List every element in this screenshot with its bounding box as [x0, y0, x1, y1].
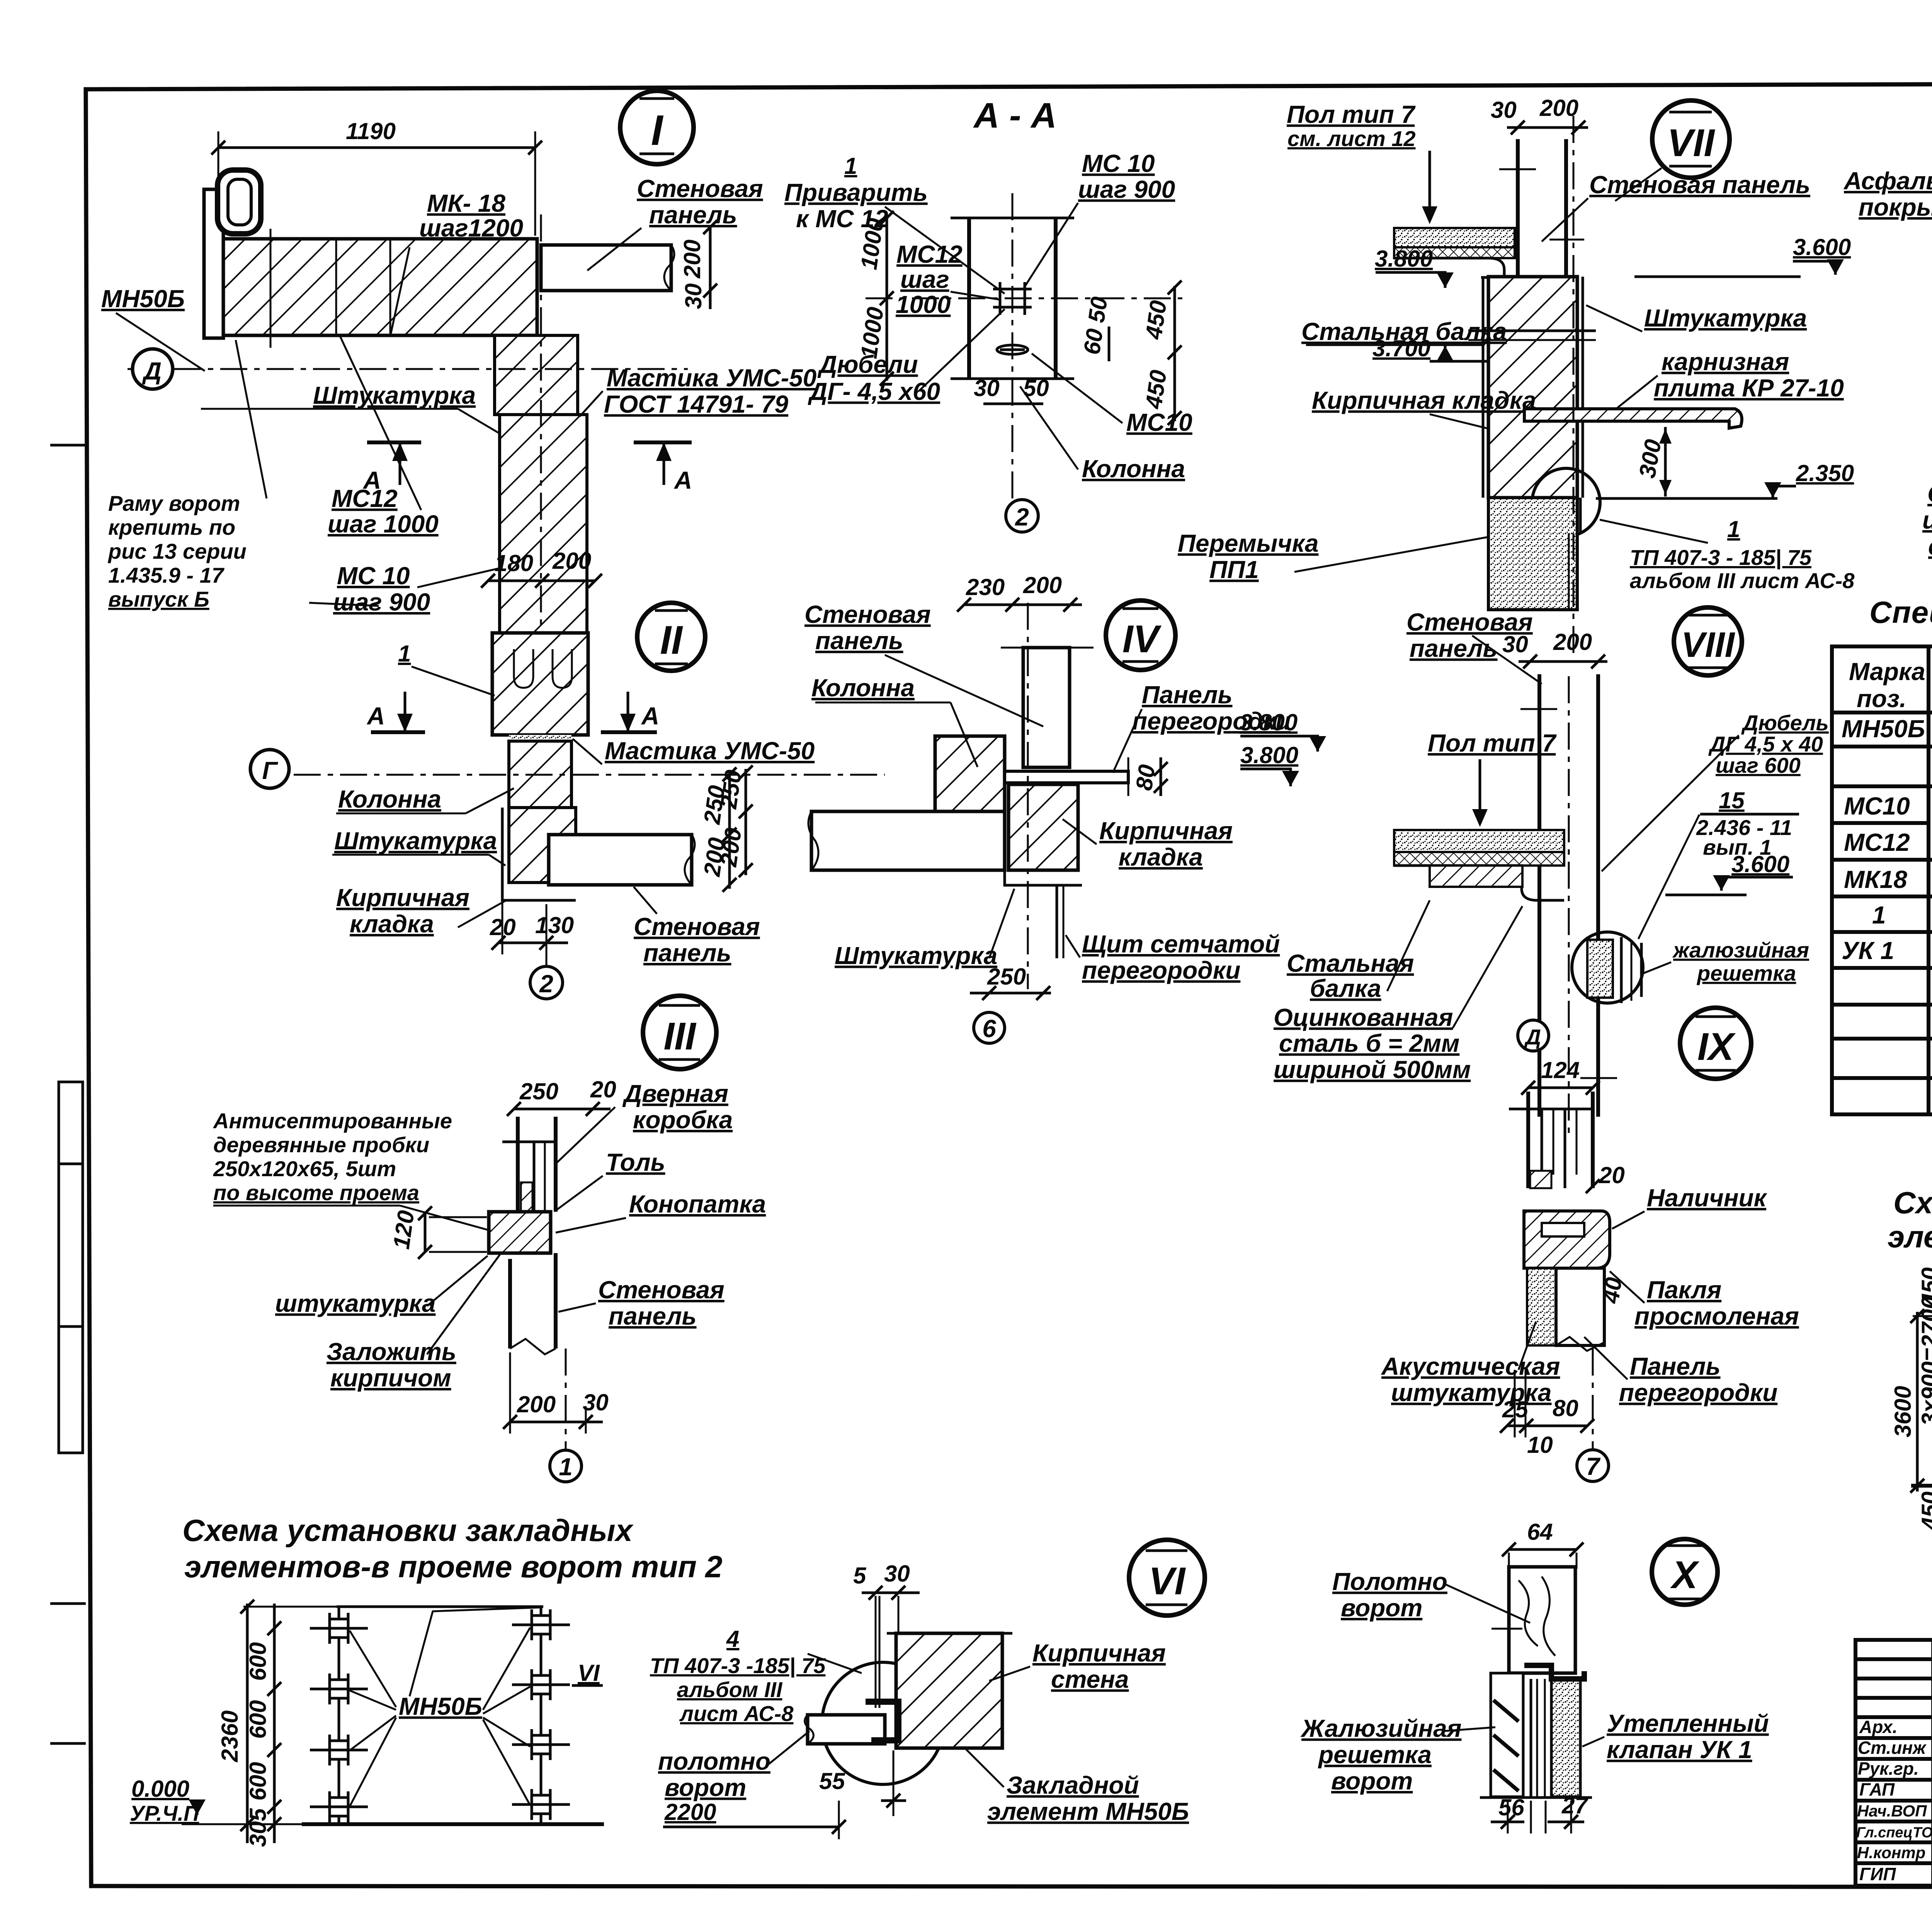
svg-text:130: 130 — [535, 912, 574, 938]
cornice slab — [1524, 409, 1742, 428]
svg-text:Н.контр: Н.контр — [1857, 1844, 1925, 1862]
svg-text:МК18: МК18 — [1844, 866, 1907, 893]
svg-text:Пакля: Пакля — [1647, 1276, 1721, 1304]
left signature table — [1855, 1657, 1932, 1661]
label MC10 шаг900 — [333, 562, 500, 616]
mastic seam — [509, 735, 571, 741]
label Кирпичная стена — [989, 1639, 1166, 1693]
plaster strip — [1582, 277, 1584, 498]
left dims 1000/1000 — [856, 211, 894, 386]
dims 250 200 left — [715, 765, 753, 877]
label Заложить кирпичом — [327, 1254, 500, 1392]
svg-text:250: 250 — [519, 1078, 558, 1104]
label Утепленный клапан УК1 — [1582, 1709, 1769, 1764]
label Штукатурка — [201, 381, 498, 433]
label Перемычка ПП1 — [1178, 529, 1488, 583]
svg-text:1: 1 — [1872, 901, 1886, 929]
svg-text:200: 200 — [552, 548, 591, 574]
svg-text:600: 600 — [245, 1700, 271, 1739]
label Кирпичная кладка — [336, 884, 506, 938]
svg-text:панель: панель — [609, 1302, 697, 1330]
svg-text:2: 2 — [539, 970, 553, 998]
label МС12 шаг 1000 — [896, 240, 999, 318]
valve core — [1524, 1665, 1584, 1797]
svg-text:80: 80 — [1131, 763, 1160, 792]
dim 250 bottom — [970, 964, 1051, 1000]
wooden plug hatched — [489, 1212, 551, 1253]
svg-text:Д: Д — [1524, 1025, 1541, 1049]
svg-text:55: 55 — [819, 1768, 845, 1794]
svg-text:Штукатурка: Штукатурка — [835, 942, 997, 969]
dim 80 — [1131, 757, 1168, 796]
neck — [509, 741, 571, 808]
label 1 — [398, 641, 495, 696]
svg-text:450: 450 — [1140, 299, 1171, 341]
right dims 450/450 60/50 — [1079, 281, 1182, 425]
svg-text:плита КР 27-10: плита КР 27-10 — [1654, 374, 1844, 402]
svg-text:шириной 500мм: шириной 500мм — [1274, 1056, 1471, 1083]
svg-text:Ст.инж: Ст.инж — [1858, 1738, 1927, 1758]
axis — [1573, 116, 1575, 657]
svg-text:Стеновая: Стеновая — [804, 600, 931, 628]
level 3.800 left — [1375, 246, 1454, 288]
svg-text:перегородки: перегородки — [1082, 956, 1240, 984]
label Дюбели ДГ-4,5х60 — [808, 309, 1005, 405]
svg-text:А - А: А - А — [973, 96, 1057, 135]
svg-text:56: 56 — [1498, 1794, 1524, 1820]
svg-text:7: 7 — [1586, 1452, 1601, 1480]
svg-text:Приварить: Приварить — [784, 179, 928, 206]
wall panel verticals — [1537, 674, 1541, 1117]
svg-text:МК- 18: МК- 18 — [427, 189, 505, 217]
svg-text:450: 450 — [1140, 368, 1171, 410]
svg-text:Жалюзийная: Жалюзийная — [1300, 1714, 1461, 1742]
svg-text:ТП 407-3 - 185| 75: ТП 407-3 - 185| 75 — [1630, 545, 1812, 570]
level 3.600 — [1634, 234, 1851, 277]
svg-text:Дюбели: Дюбели — [817, 350, 918, 378]
svg-text:лист АС-8: лист АС-8 — [679, 1701, 794, 1726]
svg-text:МН50Б: МН50Б — [101, 285, 185, 313]
svg-text:IV: IV — [1122, 617, 1162, 661]
dim 250 20 — [507, 1077, 616, 1116]
svg-text:VII: VII — [1667, 121, 1715, 165]
jalousie strip — [1491, 1673, 1523, 1797]
label Стеновая панель — [1542, 171, 1810, 241]
svg-text:250: 250 — [715, 768, 746, 810]
label Оцинкованная сталь — [1274, 906, 1522, 1083]
svg-text:Пол тип 7: Пол тип 7 — [1287, 100, 1416, 128]
label карнизная плита КР27-10 — [1615, 348, 1844, 410]
axis Г — [294, 774, 885, 776]
svg-text:600: 600 — [245, 1642, 271, 1681]
svg-text:5: 5 — [853, 1563, 867, 1588]
svg-text:0.000: 0.000 — [131, 1776, 189, 1802]
svg-text:МС12: МС12 — [332, 485, 398, 512]
svg-text:Стеновая панель: Стеновая панель — [1589, 171, 1810, 199]
svg-text:450: 450 — [1917, 1267, 1932, 1306]
svg-text:80: 80 — [1553, 1395, 1578, 1421]
label Колонна — [811, 674, 978, 767]
level 3.700 left — [1372, 335, 1509, 361]
svg-text:ДГ 4,5 х 40: ДГ 4,5 х 40 — [1708, 732, 1823, 756]
label Пакля просмоленая — [1610, 1271, 1799, 1330]
axis lines — [540, 214, 542, 641]
bolts right column — [512, 1609, 570, 1820]
zoom circle — [822, 1662, 944, 1784]
svg-text:Мастика УМС-50: Мастика УМС-50 — [605, 737, 815, 765]
level 3.800 — [1240, 742, 1299, 786]
axis — [1012, 193, 1014, 502]
svg-text:450: 450 — [1917, 1492, 1932, 1531]
svg-text:Нач.ВОП: Нач.ВОП — [1857, 1802, 1927, 1820]
svg-text:Кирпичная: Кирпичная — [1099, 817, 1233, 845]
bolts center — [993, 282, 1032, 354]
label Полотно ворот — [1332, 1568, 1530, 1623]
svg-text:сталь б = 2мм: сталь б = 2мм — [1279, 1029, 1459, 1057]
label 1 ТП407-3-185/75 альбом III лист АС-8 — [1600, 516, 1855, 593]
zoom circle on lintel — [1532, 468, 1600, 536]
svg-text:2.350: 2.350 — [1796, 460, 1854, 486]
svg-text:МС 10: МС 10 — [1082, 150, 1155, 177]
svg-text:элементов в проеме ворот: элементов в проеме ворот — [1888, 1219, 1932, 1254]
dims 25 80 10 — [1500, 1370, 1594, 1458]
dim 20 130 — [490, 889, 574, 954]
svg-text:альбом III лист АС-8: альбом III лист АС-8 — [1630, 568, 1855, 593]
label Штукатурка — [332, 827, 505, 866]
wall panel — [1516, 139, 1520, 277]
svg-text:покрытие: покрытие — [1859, 193, 1932, 221]
label Канопатка — [556, 1190, 766, 1233]
brick column — [1488, 277, 1577, 498]
detail mark VIII — [1674, 607, 1742, 675]
label Пол тип 7 — [1428, 729, 1557, 827]
svg-text:ПП1: ПП1 — [1209, 556, 1259, 583]
label Штукатурка — [1586, 304, 1807, 332]
svg-text:1: 1 — [559, 1453, 573, 1481]
svg-text:балка: балка — [1310, 975, 1381, 1002]
label Акустическая штукатурка — [1381, 1321, 1560, 1406]
axis — [1568, 676, 1570, 1140]
svg-text:124: 124 — [1541, 1057, 1580, 1083]
svg-text:250: 250 — [987, 964, 1026, 990]
column hatched square — [935, 736, 1005, 811]
svg-text:Дверная: Дверная — [622, 1080, 728, 1107]
svg-text:Штукатурка: Штукатурка — [1644, 304, 1807, 332]
svg-text:панель: панель — [649, 201, 737, 229]
door frame profile — [502, 1117, 556, 1212]
dim 20 — [1586, 1162, 1625, 1193]
dim 200 30 — [503, 1352, 609, 1434]
ground line — [1911, 1484, 1932, 1488]
svg-text:1190: 1190 — [346, 118, 396, 144]
svg-text:Антисептированные: Антисептированные — [213, 1109, 452, 1133]
svg-text:к МС 12: к МС 12 — [796, 205, 888, 233]
svg-text:элементов-в проеме ворот ти: элементов-в проеме ворот тип 2 — [184, 1549, 723, 1584]
label Наличник — [1612, 1184, 1768, 1229]
level 3.800 — [1240, 709, 1326, 752]
svg-text:шаг 600: шаг 600 — [1716, 753, 1801, 777]
dim 40 — [1597, 1276, 1627, 1312]
node bubble 1 — [550, 1349, 582, 1482]
svg-text:Закладной: Закладной — [1007, 1771, 1139, 1799]
svg-text:II: II — [660, 618, 683, 663]
signature rows texts — [1856, 1717, 1932, 1884]
wall panel right — [541, 245, 674, 291]
label Стальная балка — [1287, 900, 1430, 1002]
mark VI — [572, 1660, 603, 1686]
section marks A — [366, 692, 659, 732]
dim 2200 — [663, 1799, 846, 1839]
svg-text:жалюзийная: жалюзийная — [1672, 938, 1809, 962]
svg-text:Стальная балка: Стальная балка — [1301, 318, 1507, 345]
level 0.000 УР.Ч.П — [130, 1776, 247, 1825]
svg-text:просмоленая: просмоленая — [1634, 1302, 1799, 1330]
svg-text:МН50Б: МН50Б — [399, 1692, 482, 1720]
window block profile — [1509, 1092, 1593, 1188]
label Мастика УМС-50 ГОСТ14791-79 — [580, 364, 816, 418]
svg-text:10: 10 — [1527, 1432, 1553, 1458]
wall panel right — [549, 835, 695, 885]
svg-text:200: 200 — [1023, 572, 1062, 598]
svg-text:Схема установки закладных: Схема установки закладных — [1893, 1185, 1932, 1220]
svg-text:А: А — [641, 702, 659, 730]
svg-text:Рук.гр.: Рук.гр. — [1858, 1759, 1919, 1779]
svg-text:перегородки: перегородки — [1619, 1379, 1777, 1406]
svg-text:Арх.: Арх. — [1859, 1717, 1898, 1737]
dim 55 — [819, 1750, 906, 1816]
column lower part — [1488, 498, 1577, 610]
label Закладной элемент МН50Б — [966, 1749, 1189, 1825]
svg-text:Полотно: Полотно — [1332, 1568, 1447, 1595]
svg-text:15: 15 — [1719, 787, 1745, 813]
grid bubble Д — [1518, 1020, 1549, 1051]
svg-text:Пол тип 7: Пол тип 7 — [1428, 729, 1557, 757]
label MC12 шаг1000 — [328, 336, 439, 538]
svg-text:Спецификация элементов к пл: Спецификация элементов к плану на отм 0.… — [1869, 595, 1932, 629]
svg-text:3.800: 3.800 — [1240, 709, 1298, 735]
svg-text:Дюбель: Дюбель — [1741, 711, 1829, 735]
svg-text:решетка: решетка — [1318, 1741, 1432, 1769]
svg-text:VI: VI — [1149, 1560, 1186, 1603]
detail mark VII — [1615, 100, 1730, 201]
svg-text:305: 305 — [245, 1808, 271, 1847]
svg-text:1: 1 — [1727, 516, 1740, 542]
svg-text:Стеновая: Стеновая — [634, 913, 760, 940]
label Стеновая панель — [587, 175, 763, 270]
zoom circle grille — [1572, 932, 1643, 1003]
svg-text:коробка: коробка — [633, 1106, 733, 1134]
svg-text:поз.: поз. — [1857, 685, 1906, 713]
svg-text:2200: 2200 — [664, 1799, 716, 1825]
svg-text:30: 30 — [1491, 97, 1517, 123]
svg-text:Гл.спецТО: Гл.спецТО — [1856, 1825, 1932, 1841]
svg-text:1000: 1000 — [896, 291, 951, 318]
MN50B label with fan leaders — [350, 1607, 540, 1806]
svg-text:230: 230 — [966, 574, 1005, 600]
svg-text:ворот: ворот — [1331, 1767, 1413, 1795]
steel angle embed — [866, 1702, 898, 1740]
svg-text:ворот: ворот — [1341, 1594, 1422, 1622]
svg-text:Кирпичная кладка: Кирпичная кладка — [1312, 386, 1536, 414]
svg-text:200: 200 — [517, 1391, 556, 1417]
svg-text:панель: панель — [643, 939, 731, 967]
svg-text:3.600: 3.600 — [1731, 851, 1789, 877]
svg-text:кладка: кладка — [1119, 843, 1203, 871]
bolts left column — [310, 1613, 368, 1822]
dims right 250/200 — [699, 767, 736, 892]
svg-text:27: 27 — [1561, 1793, 1588, 1818]
gate frame — [337, 1605, 543, 1608]
dim 180 200 — [481, 548, 602, 588]
node bubble 7 — [1577, 1349, 1609, 1481]
bottom line — [1480, 1796, 1592, 1799]
svg-text:4: 4 — [726, 1626, 739, 1652]
label MN50B — [101, 285, 205, 371]
svg-text:Кирпичная: Кирпичная — [336, 884, 469, 912]
labels left — [213, 1109, 491, 1231]
svg-text:Колонна: Колонна — [811, 674, 915, 702]
grid bubble D — [133, 349, 173, 389]
svg-text:VIII: VIII — [1681, 625, 1735, 665]
svg-text:600: 600 — [245, 1762, 271, 1801]
svg-text:Стеновая: Стеновая — [598, 1276, 724, 1304]
svg-text:I: I — [651, 107, 664, 154]
label Толь — [557, 1148, 665, 1209]
svg-text:штукатурка: штукатурка — [275, 1289, 435, 1317]
svg-text:Наличник: Наличник — [1647, 1184, 1768, 1212]
svg-text:200: 200 — [715, 826, 746, 868]
dim 64 — [1502, 1519, 1583, 1569]
svg-text:IX: IX — [1697, 1025, 1736, 1068]
svg-text:Кирпичная: Кирпичная — [1032, 1639, 1166, 1667]
svg-text:УР.Ч.П: УР.Ч.П — [130, 1801, 200, 1825]
svg-text:УК 1: УК 1 — [1842, 937, 1894, 964]
svg-text:Марка: Марка — [1849, 658, 1925, 685]
svg-text:64: 64 — [1527, 1519, 1553, 1545]
dim 124 — [1521, 1057, 1600, 1095]
label Стальная балка — [1301, 318, 1507, 345]
dim 230 200 — [957, 572, 1082, 612]
dim 120 — [388, 1206, 487, 1259]
svg-text:Оцинкованная: Оцинкованная — [1274, 1003, 1453, 1031]
svg-text:выпуск Б: выпуск Б — [108, 587, 209, 611]
svg-text:Г: Г — [262, 757, 278, 784]
detail mark VI — [1129, 1540, 1205, 1616]
table grid — [1832, 646, 1932, 1114]
dims 56 27 — [1491, 1793, 1588, 1833]
detail mark II — [637, 603, 705, 671]
svg-text:ДГ- 4,5 х60: ДГ- 4,5 х60 — [808, 378, 940, 405]
svg-text:3.600: 3.600 — [1793, 234, 1851, 260]
gate leaf wood — [1492, 1567, 1575, 1673]
svg-text:VI: VI — [578, 1660, 600, 1686]
dim 200/30 right — [679, 220, 717, 309]
node bubble 2 — [530, 904, 563, 999]
dims 5 30 — [853, 1561, 920, 1708]
detail mark I — [620, 91, 694, 164]
label Стеновая панель below — [634, 887, 760, 967]
svg-text:1: 1 — [398, 641, 411, 667]
svg-text:шаг1200: шаг1200 — [419, 214, 523, 242]
svg-text:250х120х65, 5шт: 250х120х65, 5шт — [213, 1156, 396, 1181]
label 1 / Приварить к МС12 — [784, 153, 1005, 294]
svg-text:20: 20 — [1599, 1162, 1625, 1188]
label MK-18 шаг1200 — [390, 189, 523, 336]
svg-text:1: 1 — [844, 153, 857, 179]
svg-text:Мастика УМС-50: Мастика УМС-50 — [607, 364, 816, 392]
svg-text:3600: 3600 — [1890, 1386, 1916, 1437]
embedded channel MN50B — [204, 189, 223, 338]
svg-text:МС10: МС10 — [1844, 792, 1910, 820]
svg-text:из непучнистого грунта: из непучнистого грунта — [1922, 506, 1932, 534]
label Кирпичная кладка — [1063, 817, 1233, 871]
svg-text:Д: Д — [142, 357, 162, 385]
level 3.600 — [1665, 851, 1793, 895]
svg-text:Схема установки закладных: Схема установки закладных — [182, 1513, 634, 1548]
lower block — [509, 808, 576, 883]
label жалюзийная решетка — [1642, 938, 1809, 985]
svg-text:Стеновая: Стеновая — [637, 175, 763, 202]
svg-text:ГИП: ГИП — [1859, 1864, 1896, 1884]
label Стеновая панель — [1406, 608, 1542, 684]
label Стеновая панель — [558, 1276, 724, 1330]
floor slab left — [1394, 228, 1515, 277]
label Стеновая панель — [804, 600, 1043, 726]
svg-text:III: III — [663, 1015, 697, 1058]
label полотно ворот — [658, 1731, 810, 1801]
label Жалюзийная решетка ворот — [1300, 1714, 1495, 1795]
label 4 ТП407-3-185/75 альбом III лист АС-8 — [650, 1626, 862, 1726]
svg-text:200: 200 — [679, 240, 705, 279]
svg-text:шаг 900: шаг 900 — [1078, 175, 1175, 203]
dims — [1890, 1267, 1932, 1531]
svg-text:с утрамбовкой: с утрамбовкой — [1928, 532, 1932, 560]
section mark A (left) — [362, 442, 421, 494]
наличник casing — [1524, 1211, 1610, 1268]
svg-text:Толь: Толь — [606, 1148, 665, 1176]
svg-text:30: 30 — [680, 283, 706, 309]
svg-text:крепить по: крепить по — [108, 515, 235, 539]
svg-text:см. лист 12: см. лист 12 — [1287, 126, 1416, 151]
ground line — [302, 1822, 604, 1826]
detail mark IX — [1680, 1008, 1751, 1079]
svg-text:180: 180 — [495, 550, 533, 576]
label Штукатурка — [835, 889, 1014, 969]
svg-text:шаг 900: шаг 900 — [333, 588, 430, 616]
svg-text:X: X — [1670, 1553, 1700, 1597]
svg-text:А: А — [673, 466, 692, 494]
svg-text:А: А — [366, 702, 385, 730]
partition panel to right — [1005, 771, 1128, 783]
svg-text:Утепленный: Утепленный — [1607, 1709, 1769, 1737]
svg-text:120: 120 — [388, 1209, 419, 1250]
svg-text:ГОСТ 14791- 79: ГОСТ 14791- 79 — [604, 390, 789, 418]
svg-text:рис 13 серии: рис 13 серии — [107, 539, 247, 563]
svg-text:1.435.9 - 17: 1.435.9 - 17 — [108, 563, 225, 587]
lintel beam hatched — [214, 239, 537, 335]
svg-text:элемент МН50Б: элемент МН50Б — [987, 1798, 1189, 1825]
label Щит сетчатой перегородки — [1066, 930, 1280, 984]
label МС10 шаг900 top right — [1024, 150, 1175, 288]
label Колонна — [1020, 386, 1185, 483]
svg-text:Перемычка: Перемычка — [1178, 529, 1318, 557]
brick wall hatched — [896, 1633, 1002, 1748]
svg-text:Колонна: Колонна — [338, 785, 441, 813]
svg-text:стена: стена — [1051, 1665, 1129, 1693]
svg-text:панель: панель — [815, 627, 903, 655]
dim 30 200 — [1502, 629, 1607, 668]
svg-text:30: 30 — [884, 1561, 910, 1587]
